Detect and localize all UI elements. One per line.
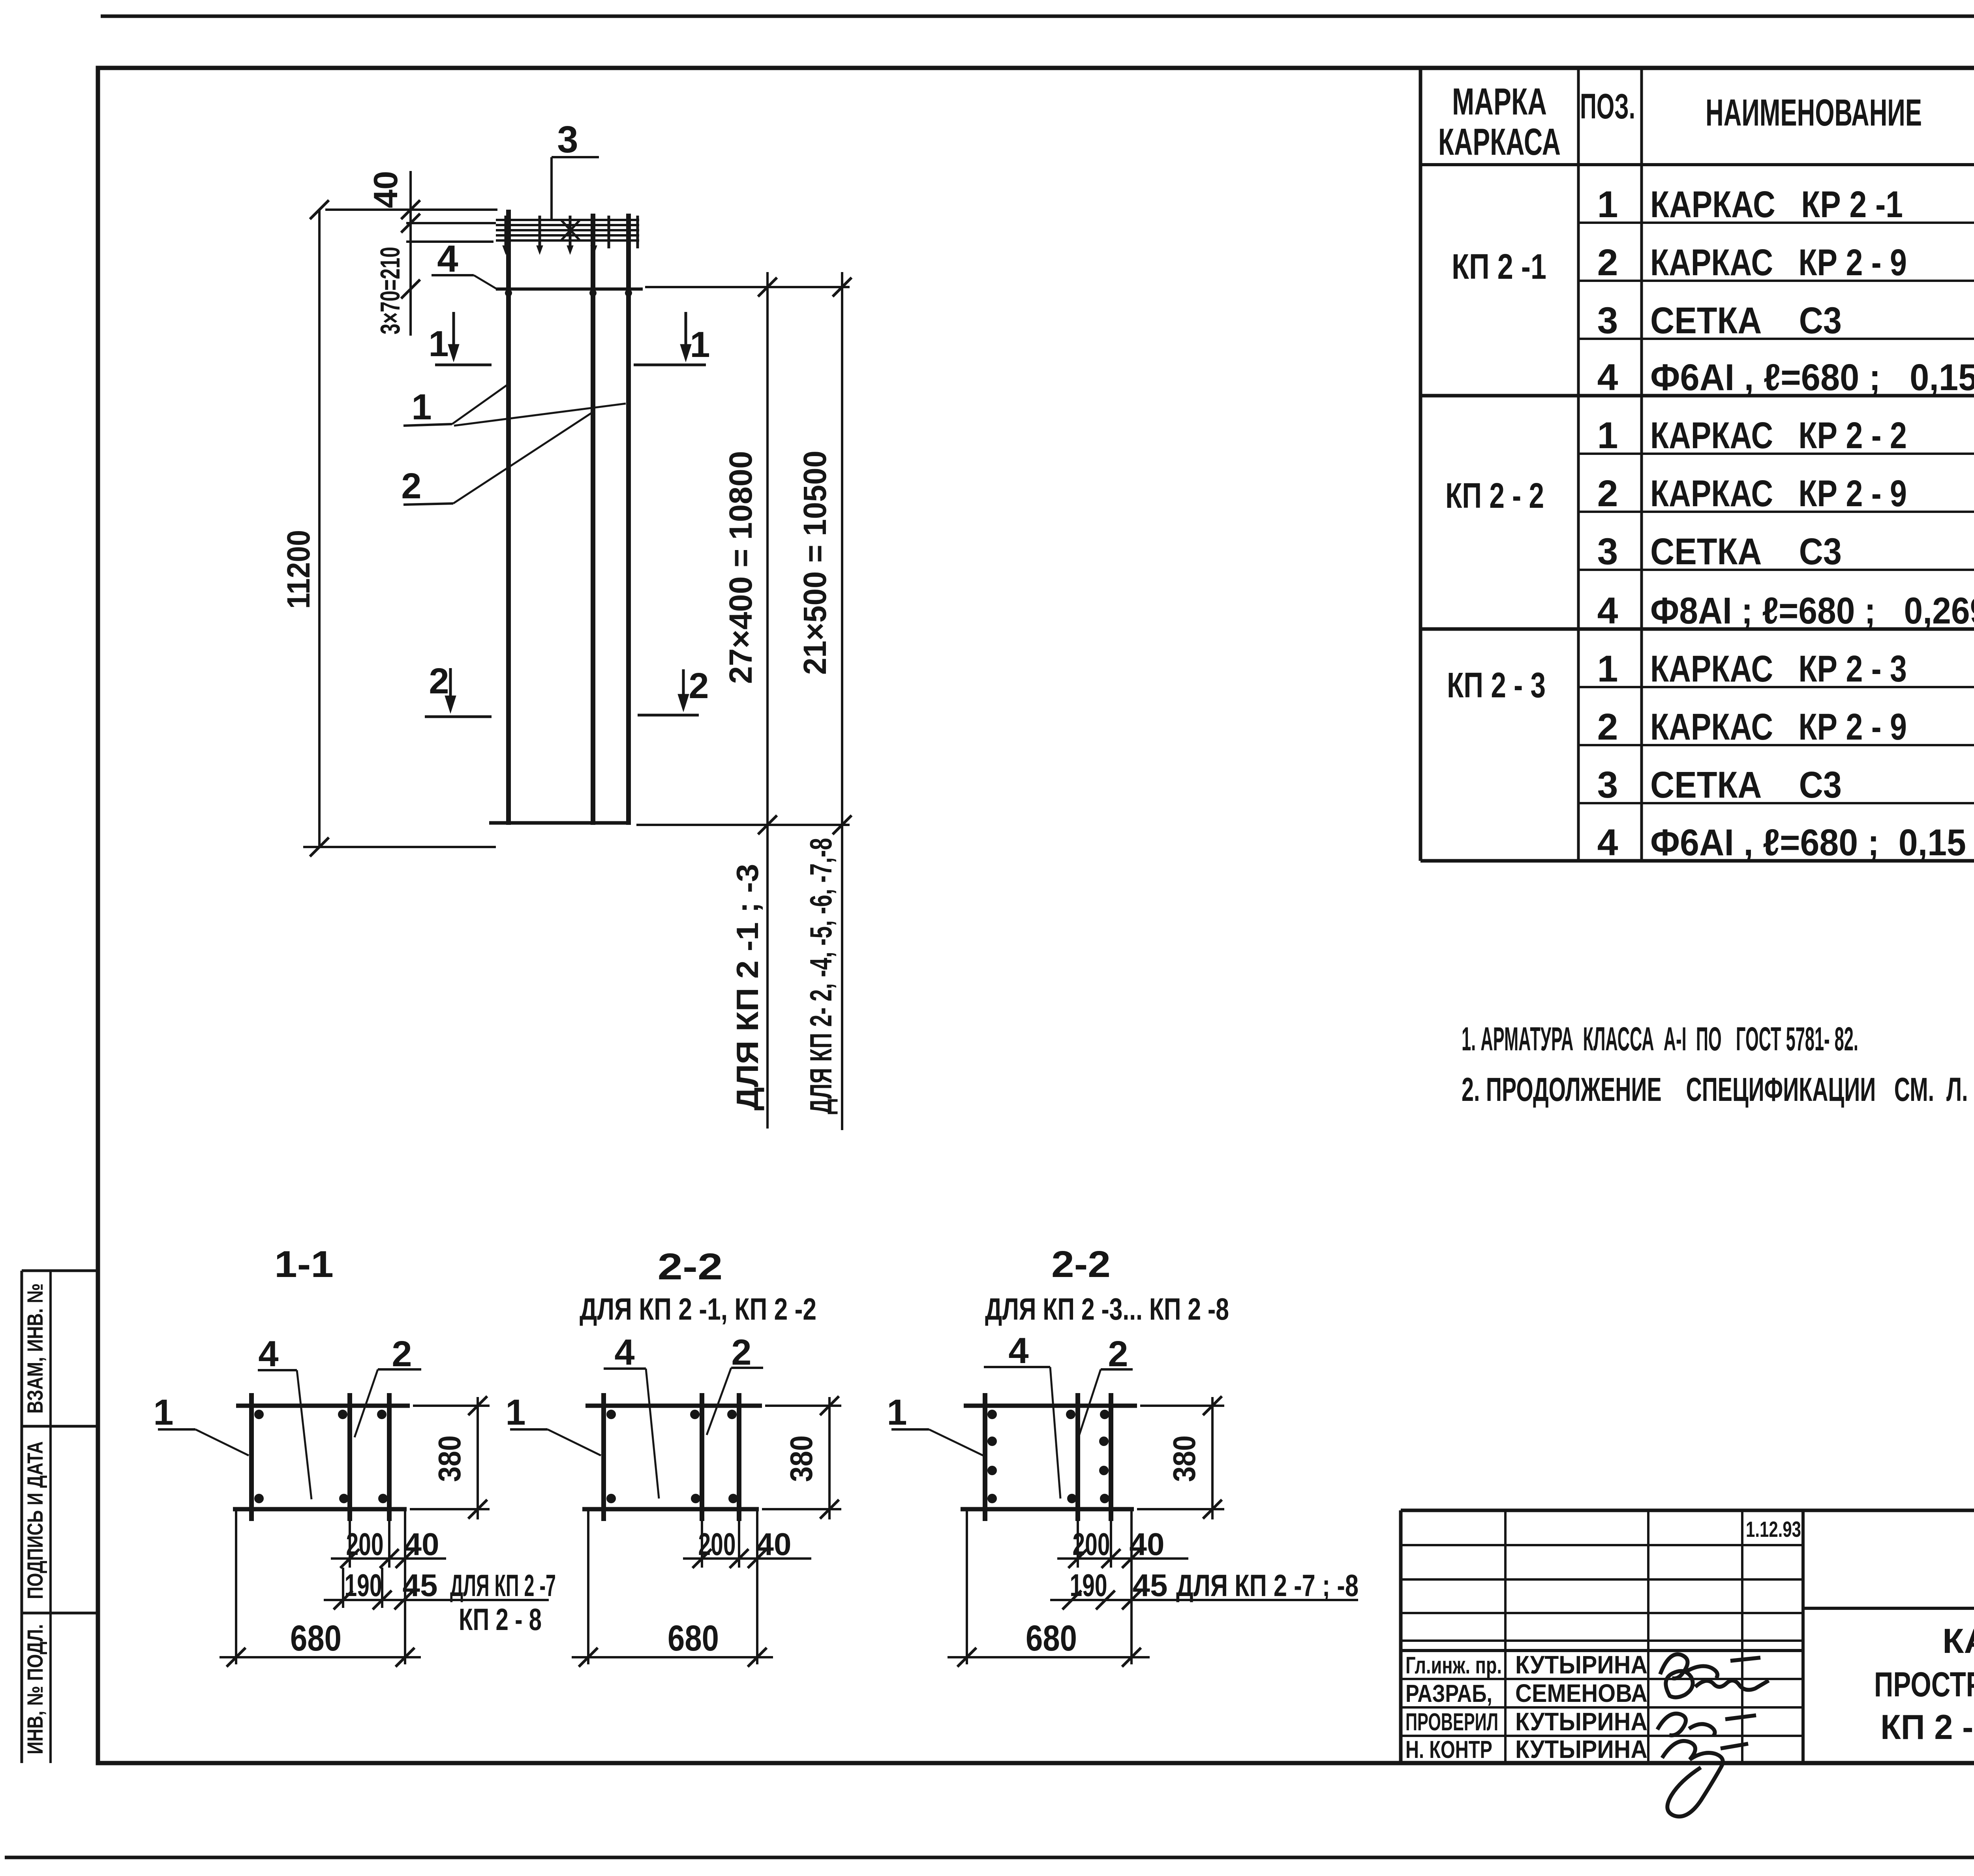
section label 1 leader bbox=[891, 1429, 983, 1455]
section label 2 leader bbox=[1079, 1369, 1133, 1436]
svg-text:3: 3 bbox=[1597, 531, 1618, 573]
svg-text:4: 4 bbox=[1597, 357, 1618, 398]
svg-text:4: 4 bbox=[1597, 822, 1618, 864]
section rebar dots bbox=[606, 1410, 738, 1503]
extension line mesh bottom bbox=[406, 240, 493, 243]
svg-text:1: 1 bbox=[1597, 415, 1618, 456]
section mark 2 left bbox=[425, 668, 492, 717]
svg-text:ВЗАМ, ИНВ. №: ВЗАМ, ИНВ. № bbox=[23, 1283, 47, 1414]
svg-text:2: 2 bbox=[392, 1334, 412, 1374]
svg-text:190: 190 bbox=[1070, 1568, 1107, 1603]
section dimension 200 40 bbox=[331, 1549, 446, 1568]
signature 3 bbox=[1657, 1714, 1756, 1736]
longitudinal bar right bbox=[626, 214, 631, 825]
cage mesh C3 horizontal wires bbox=[496, 220, 639, 240]
svg-text:КАРКАС КР 2 -1: КАРКАС КР 2 -1 bbox=[1650, 184, 1903, 225]
svg-text:СЕМЕНОВА: СЕМЕНОВА bbox=[1515, 1679, 1648, 1707]
svg-text:40: 40 bbox=[404, 1527, 439, 1562]
svg-text:2: 2 bbox=[1108, 1334, 1128, 1374]
svg-text:КП 2 - 3: КП 2 - 3 bbox=[1447, 666, 1546, 705]
svg-text:40: 40 bbox=[367, 171, 405, 208]
svg-text:ДЛЯ КП 2 -1 ; -3: ДЛЯ КП 2 -1 ; -3 bbox=[730, 864, 765, 1111]
svg-text:3×70=210: 3×70=210 bbox=[375, 247, 405, 334]
svg-text:2: 2 bbox=[1597, 242, 1618, 284]
longitudinal bar left bbox=[506, 210, 511, 825]
svg-text:КАРКАС КР 2 - 9: КАРКАС КР 2 - 9 bbox=[1650, 473, 1907, 515]
svg-text:380: 380 bbox=[1167, 1435, 1202, 1482]
svg-text:РАЗРАБ,: РАЗРАБ, bbox=[1405, 1680, 1492, 1707]
section label 4 leader bbox=[604, 1369, 659, 1499]
svg-text:1: 1 bbox=[153, 1392, 173, 1433]
svg-text:380: 380 bbox=[784, 1435, 819, 1482]
top tie bar bbox=[496, 287, 643, 291]
section stirrup bars bbox=[985, 1393, 1111, 1521]
svg-text:КП 2 - 8: КП 2 - 8 bbox=[459, 1602, 542, 1637]
section dimension 680 bbox=[220, 1648, 421, 1667]
svg-text:1-1: 1-1 bbox=[274, 1243, 334, 1285]
svg-text:КП 2 - 2: КП 2 - 2 bbox=[1445, 476, 1544, 516]
svg-text:2: 2 bbox=[429, 661, 449, 701]
svg-text:НАИМЕНОВАНИЕ: НАИМЕНОВАНИЕ bbox=[1706, 92, 1922, 134]
extension line top bbox=[325, 208, 497, 211]
svg-text:1.12.93: 1.12.93 bbox=[1746, 1517, 1801, 1542]
side stamp boxes bbox=[22, 1271, 98, 1763]
svg-text:27×400 = 10800: 27×400 = 10800 bbox=[723, 451, 759, 684]
section dimension 380 bbox=[468, 1396, 487, 1519]
section bottom chord bbox=[582, 1507, 759, 1512]
spec table verticals bbox=[1420, 68, 1974, 861]
section bottom chord bbox=[233, 1507, 407, 1512]
svg-text:1: 1 bbox=[411, 387, 432, 427]
section label 1 leader bbox=[158, 1429, 249, 1455]
svg-text:4: 4 bbox=[437, 238, 458, 280]
tie junction dots bbox=[505, 289, 632, 297]
cage mesh vertical ticks bbox=[506, 216, 638, 248]
svg-text:КП 2 -1: КП 2 -1 bbox=[1452, 247, 1546, 287]
svg-text:ДЛЯ КП 2 -3... КП 2 -8: ДЛЯ КП 2 -3... КП 2 -8 bbox=[985, 1292, 1229, 1326]
bottom tie bar bbox=[489, 821, 629, 825]
svg-text:4: 4 bbox=[1597, 590, 1618, 632]
section dimension 190 45 bbox=[324, 1591, 549, 1609]
leader 4 to tie bbox=[432, 275, 498, 290]
section stirrup bars bbox=[251, 1393, 389, 1521]
svg-text:380: 380 bbox=[432, 1435, 467, 1482]
svg-text:3: 3 bbox=[1597, 764, 1618, 806]
svg-text:2-2: 2-2 bbox=[1051, 1243, 1111, 1285]
section extension verticals bbox=[236, 1509, 405, 1664]
section mark 2 right bbox=[638, 669, 699, 715]
svg-text:ПОДПИСЬ И ДАТА: ПОДПИСЬ И ДАТА bbox=[23, 1441, 47, 1599]
spec table data rows bbox=[1597, 184, 1974, 864]
dimension 27x400=10800 line bbox=[758, 272, 777, 1129]
mesh small arrows bbox=[503, 246, 597, 254]
svg-text:190: 190 bbox=[345, 1568, 382, 1603]
extension line right top bbox=[645, 286, 850, 288]
svg-text:680: 680 bbox=[668, 1618, 719, 1658]
title block column lines bbox=[1505, 1510, 1803, 1763]
svg-text:СЕТКА С3: СЕТКА С3 bbox=[1650, 300, 1842, 342]
leader 2 to middle bar bbox=[403, 413, 591, 505]
bottom rule line bbox=[5, 1856, 1974, 1859]
section dimension 680 bbox=[948, 1648, 1150, 1667]
section dimension 380 bbox=[820, 1396, 839, 1519]
svg-text:11200: 11200 bbox=[281, 530, 317, 609]
svg-text:Н. КОНТР: Н. КОНТР bbox=[1405, 1736, 1492, 1763]
svg-text:45: 45 bbox=[1133, 1568, 1168, 1603]
svg-text:4: 4 bbox=[258, 1334, 278, 1374]
spec table horizontal rules bbox=[1420, 165, 1974, 861]
svg-text:СЕТКА С3: СЕТКА С3 bbox=[1650, 531, 1842, 573]
dimension 21x500=10500 line bbox=[833, 272, 852, 1130]
section dimension 200 40 bbox=[683, 1549, 811, 1568]
svg-text:680: 680 bbox=[290, 1618, 342, 1658]
svg-text:КАРКАСА: КАРКАСА bbox=[1438, 121, 1561, 163]
svg-text:4: 4 bbox=[614, 1332, 634, 1373]
svg-text:2: 2 bbox=[1597, 473, 1618, 515]
svg-text:КУТЫРИНА: КУТЫРИНА bbox=[1515, 1707, 1648, 1736]
section top chord bbox=[964, 1404, 1137, 1408]
title block right divider bbox=[1803, 1607, 1974, 1610]
section label 2 leader bbox=[355, 1369, 421, 1437]
section top chord bbox=[585, 1404, 762, 1408]
svg-text:КАРКАС КР 2 - 9: КАРКАС КР 2 - 9 bbox=[1650, 242, 1907, 284]
svg-text:200: 200 bbox=[346, 1527, 384, 1562]
svg-text:200: 200 bbox=[1073, 1527, 1110, 1562]
svg-text:4: 4 bbox=[1008, 1331, 1028, 1371]
section label 4 leader bbox=[984, 1367, 1060, 1499]
section dimension 380 bbox=[1203, 1396, 1222, 1519]
svg-text:ДЛЯ КП 2 -7 ; -8: ДЛЯ КП 2 -7 ; -8 bbox=[1176, 1568, 1359, 1603]
title block revision rows bbox=[1401, 1545, 1803, 1736]
svg-text:КУТЫРИНА: КУТЫРИНА bbox=[1515, 1735, 1648, 1763]
svg-text:СЕТКА С3: СЕТКА С3 bbox=[1650, 764, 1842, 806]
svg-text:2: 2 bbox=[1597, 706, 1618, 748]
signature 2 bbox=[1666, 1671, 1769, 1698]
svg-text:2: 2 bbox=[401, 466, 421, 506]
svg-text:21×500 = 10500: 21×500 = 10500 bbox=[797, 451, 833, 675]
svg-text:1: 1 bbox=[690, 325, 710, 365]
section bottom chord bbox=[961, 1507, 1134, 1512]
signature 4 bbox=[1662, 1741, 1748, 1816]
dimension 40 / 3x70=210 line bbox=[401, 171, 420, 336]
title block outline bbox=[1401, 1510, 1974, 1763]
svg-text:Ф8АI ; ℓ=680 ; 0,269 кг: Ф8АI ; ℓ=680 ; 0,269 кг bbox=[1650, 590, 1974, 632]
section dimension 680 bbox=[572, 1648, 773, 1667]
section dimension 200 40 bbox=[1057, 1549, 1188, 1568]
svg-text:ДЛЯ КП 2- 2, -4, -5, -6, -7,-8: ДЛЯ КП 2- 2, -4, -5, -6, -7,-8 bbox=[803, 838, 838, 1114]
svg-text:2: 2 bbox=[731, 1332, 751, 1373]
section rebar dots bbox=[254, 1410, 388, 1503]
svg-text:1: 1 bbox=[428, 324, 448, 364]
svg-text:КАРКАС КР 2 - 9: КАРКАС КР 2 - 9 bbox=[1650, 706, 1907, 748]
dimension 11200 line bbox=[310, 200, 329, 856]
section extension verticals bbox=[588, 1509, 757, 1664]
svg-text:ИНВ, № ПОДЛ.: ИНВ, № ПОДЛ. bbox=[23, 1624, 47, 1754]
svg-text:1: 1 bbox=[887, 1392, 907, 1433]
longitudinal bar middle bbox=[591, 214, 595, 825]
svg-text:Гл.инж. пр.: Гл.инж. пр. bbox=[1405, 1652, 1502, 1679]
svg-text:ПРОВЕРИЛ: ПРОВЕРИЛ bbox=[1405, 1709, 1498, 1736]
extension line mesh bbox=[406, 222, 496, 224]
section top chord bbox=[236, 1404, 410, 1408]
svg-text:2-2: 2-2 bbox=[658, 1246, 723, 1288]
section label 1 leader bbox=[510, 1429, 601, 1455]
svg-text:1. АРМАТУРА КЛАССА А-I ПО: 1. АРМАТУРА КЛАССА А-I ПО ГОСТ 5781- 82. bbox=[1462, 1020, 1858, 1057]
section stirrup bars bbox=[604, 1393, 739, 1521]
mesh X mark bbox=[561, 220, 580, 240]
svg-text:1: 1 bbox=[1597, 184, 1618, 225]
svg-text:Ф6АI , ℓ=680 ; 0,15 кг: Ф6АI , ℓ=680 ; 0,15 кг bbox=[1650, 822, 1974, 864]
svg-text:680: 680 bbox=[1026, 1618, 1077, 1658]
extension line bottom bbox=[303, 846, 496, 848]
svg-text:2. ПРОДОЛЖЕНИЕ СПЕЦИФИКАЦИИ: 2. ПРОДОЛЖЕНИЕ СПЕЦИФИКАЦИИ СМ. Л. 2 . bbox=[1462, 1071, 1974, 1108]
svg-text:ПОЗ.: ПОЗ. bbox=[1580, 87, 1635, 126]
svg-text:45: 45 bbox=[403, 1568, 438, 1603]
leader 1 to bars bbox=[403, 383, 626, 426]
section mark 1 right bbox=[634, 312, 706, 365]
svg-text:ДЛЯ КП 2 -1, КП 2 -2: ДЛЯ КП 2 -1, КП 2 -2 bbox=[580, 1292, 816, 1326]
svg-text:ДЛЯ КП 2 -7: ДЛЯ КП 2 -7 bbox=[450, 1568, 556, 1603]
svg-text:КАРКАС: КАРКАС bbox=[1942, 1621, 1974, 1660]
svg-text:КУТЫРИНА: КУТЫРИНА bbox=[1515, 1651, 1648, 1679]
svg-text:3: 3 bbox=[557, 118, 578, 161]
leader 3 to mesh bbox=[552, 157, 599, 220]
svg-text:КАРКАС КР 2 - 2: КАРКАС КР 2 - 2 bbox=[1650, 415, 1907, 456]
svg-text:3: 3 bbox=[1597, 300, 1618, 342]
section extension verticals bbox=[967, 1509, 1131, 1664]
section mark 1 left bbox=[435, 312, 492, 365]
svg-text:КП 2 - 1 ... КП 2 - 8: КП 2 - 1 ... КП 2 - 8 bbox=[1880, 1707, 1974, 1746]
svg-text:40: 40 bbox=[756, 1527, 792, 1562]
svg-text:200: 200 bbox=[698, 1527, 736, 1562]
section rebar dots bbox=[987, 1410, 1109, 1503]
svg-text:1: 1 bbox=[1597, 648, 1618, 690]
svg-text:2: 2 bbox=[689, 666, 709, 706]
section label 4 leader bbox=[258, 1370, 311, 1499]
svg-text:1: 1 bbox=[505, 1392, 525, 1433]
svg-text:ПРОСТРАНСТВЕННЫЙ: ПРОСТРАНСТВЕННЫЙ bbox=[1874, 1665, 1974, 1704]
section dimension 190 45 bbox=[1050, 1591, 1358, 1609]
section label 2 leader bbox=[707, 1368, 763, 1435]
svg-text:Ф6АI , ℓ=680 ; 0,15 кг: Ф6АI , ℓ=680 ; 0,15 кг bbox=[1650, 357, 1974, 398]
signature 1 bbox=[1660, 1654, 1760, 1678]
svg-text:МАРКА: МАРКА bbox=[1452, 81, 1547, 123]
extension line right bottom bbox=[636, 824, 850, 826]
svg-text:КАРКАС КР 2 - 3: КАРКАС КР 2 - 3 bbox=[1650, 648, 1907, 690]
top rule line bbox=[101, 15, 1974, 18]
svg-text:40: 40 bbox=[1130, 1527, 1165, 1562]
